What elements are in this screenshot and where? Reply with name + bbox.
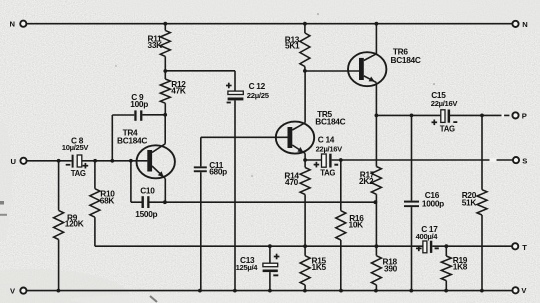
svg-text:S: S: [522, 156, 527, 165]
svg-text:10µ/25V: 10µ/25V: [62, 143, 90, 152]
svg-text:TAG: TAG: [320, 168, 335, 178]
svg-text:47K: 47K: [171, 85, 186, 95]
svg-text:10K: 10K: [349, 220, 364, 230]
svg-text:51K: 51K: [462, 198, 477, 208]
svg-text:C 14: C 14: [318, 134, 335, 144]
svg-text:470: 470: [285, 177, 299, 187]
svg-text:N: N: [522, 20, 527, 29]
svg-text:22µ/16V: 22µ/16V: [316, 145, 344, 154]
svg-text:390: 390: [384, 264, 398, 274]
svg-text:680p: 680p: [209, 166, 227, 176]
svg-text:1000p: 1000p: [422, 199, 444, 209]
svg-text:125µ/4: 125µ/4: [236, 263, 259, 272]
svg-text:TAG: TAG: [71, 168, 86, 178]
svg-text:C 12: C 12: [249, 81, 266, 91]
svg-text:BC184C: BC184C: [391, 55, 421, 65]
svg-text:2K2: 2K2: [359, 176, 374, 186]
svg-text:22µ/25: 22µ/25: [247, 91, 270, 100]
svg-text:100p: 100p: [130, 99, 148, 109]
svg-text:T: T: [522, 243, 527, 252]
svg-text:120K: 120K: [65, 219, 84, 229]
svg-text:TAG: TAG: [440, 124, 455, 134]
svg-text:400µ/4: 400µ/4: [416, 232, 439, 241]
svg-text:33K: 33K: [148, 40, 163, 50]
svg-text:C10: C10: [140, 185, 155, 195]
svg-text:N: N: [10, 19, 15, 28]
svg-text:1K5: 1K5: [312, 262, 327, 272]
svg-text:P: P: [522, 112, 527, 121]
svg-text:BC184C: BC184C: [315, 116, 345, 126]
svg-text:1K8: 1K8: [453, 262, 468, 272]
svg-text:22µ/16V: 22µ/16V: [431, 99, 459, 108]
svg-text:68K: 68K: [100, 195, 115, 205]
svg-text:1500p: 1500p: [135, 209, 157, 219]
svg-text:BC184C: BC184C: [117, 136, 147, 146]
svg-text:U: U: [11, 157, 17, 166]
svg-text:5K1: 5K1: [285, 41, 300, 51]
